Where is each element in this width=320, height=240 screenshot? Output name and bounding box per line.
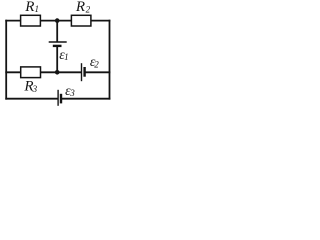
svg-text:1: 1	[35, 4, 40, 14]
wire: top wire middle segment	[40, 20, 73, 22]
wire: middle vertical wire upper segment	[56, 21, 58, 42]
svg-text:1: 1	[64, 52, 69, 62]
background	[0, 0, 115, 110]
wire: bottom wire left segment	[5, 98, 58, 100]
wire: top wire left segment	[5, 20, 21, 22]
svg-text:3: 3	[69, 88, 75, 98]
svg-text:2: 2	[94, 60, 99, 70]
wire: middle horizontal wire center segment	[40, 71, 82, 73]
battery E3 long plate	[57, 90, 59, 106]
svg-text:2: 2	[86, 4, 91, 14]
wire: middle vertical wire lower segment	[56, 46, 58, 72]
svg-text:R: R	[24, 0, 34, 15]
battery E2 short plate	[83, 67, 85, 77]
svg-text:R: R	[75, 0, 85, 15]
battery E3 short plate	[60, 94, 62, 104]
svg-text:3: 3	[32, 84, 38, 94]
wire: top wire right segment	[90, 20, 110, 22]
wire: bottom wire right segment	[61, 98, 110, 100]
battery E2 long plate	[81, 63, 83, 81]
battery E1 short plate	[53, 45, 62, 47]
wire: right vertical wire	[109, 20, 111, 100]
wire: middle horizontal wire left segment	[5, 71, 21, 73]
resistor R3	[21, 67, 41, 78]
resistor R1	[21, 15, 41, 26]
node A (junction of R1/R2 and middle branch)	[55, 18, 60, 23]
battery E1 long plate	[49, 41, 67, 43]
node B (junction of middle branch and middle wire)	[55, 70, 60, 75]
resistor R2	[71, 15, 91, 26]
wire: middle horizontal wire right segment	[85, 71, 111, 73]
wire: left vertical wire	[5, 20, 7, 100]
